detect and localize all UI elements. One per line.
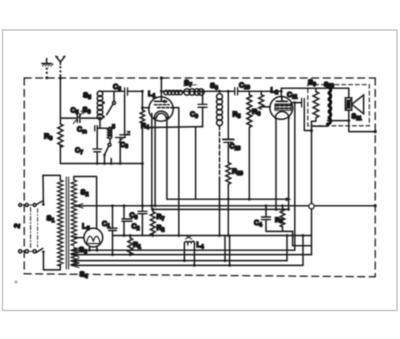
wire C5 line — [60, 117, 100, 119]
wire antenna down — [59, 78, 61, 124]
rectifier tube L3 — [84, 228, 103, 251]
output transformer primary S9 — [312, 88, 319, 121]
node S8 top — [218, 90, 221, 93]
tube L1 grids — [155, 104, 170, 106]
output transformer secondary S10 — [328, 87, 331, 124]
switch wave-change upper — [102, 91, 115, 118]
mains connector row 1 — [19, 175, 45, 206]
tube L1 envelope — [149, 97, 173, 121]
grid leak resistor R4 — [140, 90, 149, 207]
bus B2 — [72, 254, 312, 256]
coil S (padding) — [107, 127, 112, 139]
coil S7 — [183, 90, 203, 92]
coil S6 — [97, 109, 103, 119]
heater bus — [76, 205, 376, 207]
S2 top to rectifier — [74, 177, 97, 229]
hv bus — [113, 235, 312, 237]
capacitor C2 — [122, 204, 132, 237]
loudspeaker S11 — [328, 88, 377, 133]
capacitor Cm — [95, 126, 110, 131]
wire top feed — [160, 78, 162, 97]
ground symbol — [42, 59, 53, 80]
capacitor C7 — [93, 131, 102, 164]
tube L2 grids — [275, 104, 291, 110]
capacitor C13 — [223, 91, 234, 162]
wire R9 to bottom bus — [59, 145, 61, 163]
wire C10 to L2 — [238, 90, 282, 92]
tube L1 anode — [155, 97, 167, 103]
wire to C10 — [220, 90, 235, 92]
wire joint — [293, 245, 312, 247]
wire plate feed top — [281, 88, 349, 91]
wire R10 down — [227, 185, 229, 236]
coil S5 — [97, 91, 103, 110]
power transformer secondary S2 — [71, 177, 76, 246]
coil L1 primary — [161, 90, 183, 92]
node coil tap — [99, 117, 102, 120]
node phone jack (open circle) — [309, 204, 314, 209]
resistor R9 — [58, 124, 63, 147]
bus B3 — [72, 260, 288, 262]
power transformer primary S1 — [43, 175, 63, 270]
coil S8 — [217, 94, 223, 126]
capacitor C10 — [235, 88, 238, 95]
mains connector row 2 — [19, 248, 45, 270]
switch lower — [103, 139, 111, 164]
capacitor C9 — [196, 90, 207, 199]
svg-text:S10: S10 — [324, 82, 334, 90]
wire coil top to main — [100, 90, 125, 92]
wire coil bottom stub — [99, 120, 101, 129]
speaker dashed enclosure — [308, 85, 370, 126]
chassis dashed border bottom — [24, 274, 375, 277]
capacitor C1 — [108, 204, 117, 256]
capacitor C8 — [125, 88, 143, 95]
chassis dashed border top — [24, 77, 375, 79]
bias line (arrow) — [167, 198, 287, 200]
capacitor C6 (tuning, variable) — [115, 95, 129, 163]
capacitor C4 — [262, 204, 271, 231]
wire rc bottom — [266, 230, 293, 232]
chassis dashed border right — [374, 78, 376, 277]
antenna — [56, 56, 65, 79]
resistors R7 R2 — [150, 208, 155, 236]
heater drop wires — [224, 236, 226, 261]
wire S8 down — [219, 126, 221, 180]
S2 tap to rectifier plate — [74, 236, 77, 239]
capacitor C5 (variable) — [73, 111, 84, 124]
junction dots on rf bottom bus — [96, 162, 99, 165]
tube L2 pins — [276, 118, 289, 209]
wire stub — [110, 159, 112, 164]
wire to S8 — [203, 90, 220, 92]
chassis dashed border left — [23, 78, 25, 274]
capacitor C11 — [293, 98, 312, 250]
riser from rc bottom — [292, 231, 294, 245]
svg-text:5: 5 — [112, 125, 115, 131]
resistor R8 — [280, 204, 285, 231]
resistor R6 — [259, 91, 271, 109]
tube L2 envelope — [270, 97, 293, 120]
cathode line — [152, 208, 289, 210]
wire L2 top — [280, 91, 282, 97]
risers from hv bus — [286, 236, 288, 261]
tube L2 cathode — [275, 112, 289, 119]
wire S9/S10 return down — [311, 121, 313, 203]
capacitor C3 — [138, 206, 147, 236]
bus B1 — [72, 249, 295, 251]
switch linkage dash-dot — [30, 208, 32, 248]
bus B4 — [72, 264, 304, 266]
choke L4 — [183, 236, 196, 267]
S2 tap to heater bus — [74, 204, 77, 207]
resistor R10 — [226, 163, 231, 185]
node C13 line — [227, 90, 230, 93]
svg-text:R8: R8 — [275, 217, 283, 225]
winding S3 — [71, 248, 76, 266]
wire rf bottom bus — [60, 163, 142, 165]
transformer core — [66, 177, 68, 269]
wire cathode return — [150, 126, 203, 129]
tube L2 anode — [276, 97, 287, 102]
tube L1 pin left — [151, 114, 153, 210]
resistor R5 — [247, 91, 252, 199]
tube L1 cathode — [154, 111, 168, 206]
resistor R1 — [128, 234, 133, 256]
